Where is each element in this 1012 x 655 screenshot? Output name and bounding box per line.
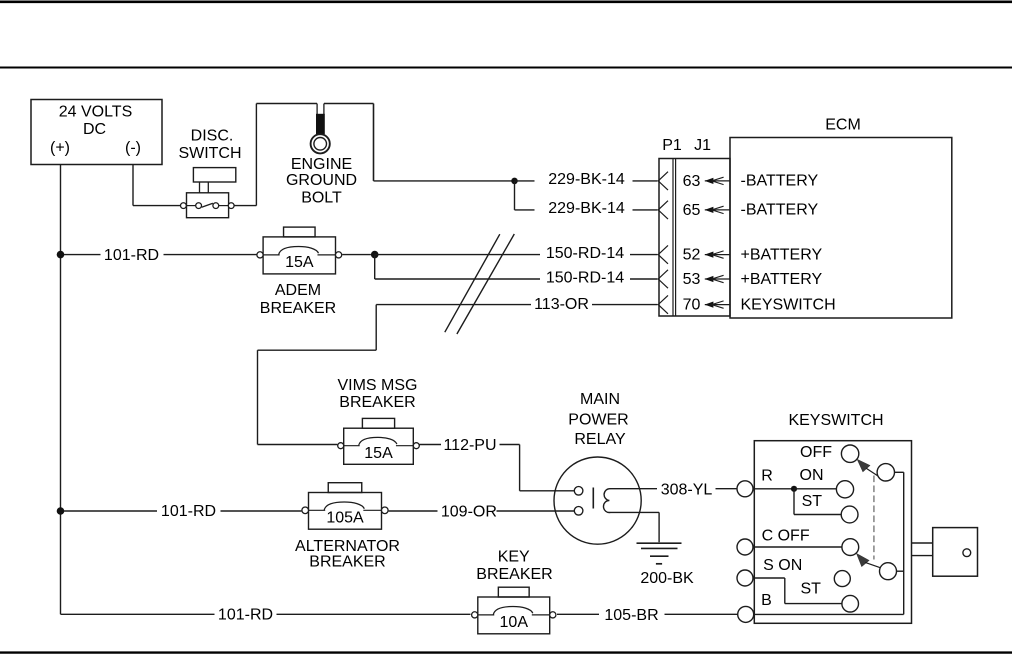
svg-text:ADEM: ADEM [275,282,321,299]
svg-text:C OFF: C OFF [762,527,810,544]
svg-text:S ON: S ON [763,557,802,574]
svg-text:BREAKER: BREAKER [260,300,336,317]
svg-text:63: 63 [683,173,701,190]
svg-text:OFF: OFF [800,444,832,461]
svg-text:BREAKER: BREAKER [339,394,415,411]
svg-text:+BATTERY: +BATTERY [741,271,823,288]
svg-text:112-PU: 112-PU [443,437,496,454]
svg-text:308-YL: 308-YL [661,482,713,499]
svg-text:-BATTERY: -BATTERY [741,173,819,190]
svg-text:-BATTERY: -BATTERY [741,202,819,219]
svg-text:ST: ST [800,580,821,597]
svg-text:65: 65 [683,202,701,219]
svg-text:(+): (+) [50,140,70,157]
svg-text:ST: ST [802,493,823,510]
svg-text:101-RD: 101-RD [104,247,159,264]
svg-text:150-RD-14: 150-RD-14 [546,269,624,286]
svg-text:52: 52 [683,247,701,264]
svg-text:ON: ON [800,467,824,484]
svg-text:24 VOLTS: 24 VOLTS [59,104,133,121]
svg-text:DISC.: DISC. [191,128,234,145]
svg-text:ALTERNATOR: ALTERNATOR [295,538,400,555]
svg-text:BREAKER: BREAKER [476,566,552,583]
svg-text:P1: P1 [662,137,682,154]
svg-text:GROUND: GROUND [286,172,357,189]
svg-text:RELAY: RELAY [574,431,626,448]
svg-text:109-OR: 109-OR [441,504,497,521]
svg-text:KEY: KEY [498,548,530,565]
svg-text:DC: DC [83,121,106,138]
svg-text:+BATTERY: +BATTERY [741,246,823,263]
svg-text:BREAKER: BREAKER [309,553,385,570]
svg-text:101-RD: 101-RD [218,607,273,624]
svg-text:15A: 15A [285,254,314,271]
svg-text:150-RD-14: 150-RD-14 [546,245,624,262]
svg-text:101-RD: 101-RD [161,503,216,520]
svg-text:B: B [761,592,772,609]
svg-text:200-BK: 200-BK [640,570,694,587]
svg-text:(-): (-) [125,140,141,157]
svg-text:POWER: POWER [568,412,628,429]
svg-text:113-OR: 113-OR [534,296,589,313]
svg-text:BOLT: BOLT [301,190,342,207]
svg-text:KEYSWITCH: KEYSWITCH [788,412,883,429]
svg-text:J1: J1 [694,137,711,154]
svg-text:ECM: ECM [825,116,861,133]
svg-text:229-BK-14: 229-BK-14 [548,200,625,217]
svg-text:229-BK-14: 229-BK-14 [548,171,625,188]
svg-text:ENGINE: ENGINE [291,156,352,173]
svg-text:MAIN: MAIN [580,391,620,408]
svg-text:15A: 15A [364,445,393,462]
svg-text:VIMS MSG: VIMS MSG [337,377,417,394]
svg-text:KEYSWITCH: KEYSWITCH [741,296,836,313]
svg-text:10A: 10A [500,614,529,631]
svg-text:53: 53 [683,271,701,288]
svg-text:R: R [761,468,773,485]
svg-text:SWITCH: SWITCH [178,145,241,162]
svg-text:105-BR: 105-BR [604,607,658,624]
svg-text:70: 70 [683,297,701,314]
svg-text:105A: 105A [326,509,364,526]
